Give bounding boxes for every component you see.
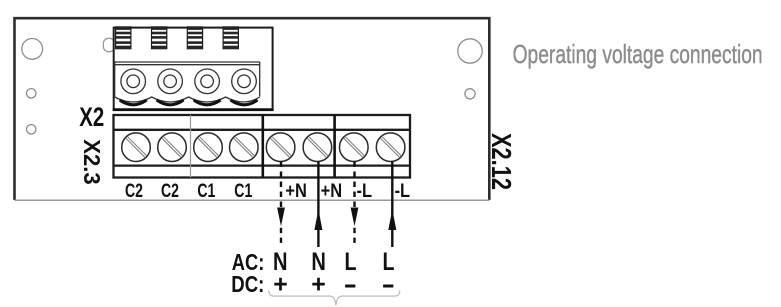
strip divider 3 <box>333 115 336 178</box>
strip inner line top <box>114 129 411 131</box>
terminal strip outer <box>114 115 411 178</box>
arrow L1 down <box>351 208 359 227</box>
connector contact smiles <box>120 100 258 105</box>
connector pin 3 <box>187 27 202 49</box>
terminal screw 4 <box>230 133 259 162</box>
connector outer box <box>114 28 273 111</box>
connector body <box>115 62 260 102</box>
terminal screw 1 <box>122 133 151 162</box>
connector socket 1 <box>121 69 146 94</box>
svg-text:C1: C1 <box>234 181 252 202</box>
wire N2 solid <box>317 162 319 248</box>
svg-text:-L: -L <box>395 181 411 202</box>
brace <box>269 290 400 305</box>
arrow N2 up <box>314 209 322 230</box>
arrow L2 up <box>388 209 396 230</box>
connector socket 3 <box>195 69 220 94</box>
wire L1 dashed <box>353 162 355 245</box>
svg-text:+: + <box>311 270 326 298</box>
svg-text:C1: C1 <box>197 181 215 202</box>
arrow N1 down <box>277 208 285 227</box>
svg-text:C2: C2 <box>161 181 179 202</box>
wire N1 dashed <box>280 162 282 245</box>
wire L2 solid <box>391 162 393 248</box>
svg-text:+N: +N <box>321 181 343 202</box>
terminal screw 2 <box>158 133 187 162</box>
mounting hole top-right <box>458 39 482 63</box>
svg-text:C2: C2 <box>125 181 143 202</box>
terminal screw 8 <box>376 133 405 162</box>
strip divider 2 <box>261 115 264 178</box>
mounting hole top-left <box>22 39 43 60</box>
connector bottom thick edge <box>113 108 274 111</box>
terminal screw 3 <box>194 133 223 162</box>
svg-text:+: + <box>273 270 288 298</box>
svg-text:X2.3: X2.3 <box>79 139 105 185</box>
svg-text:+N: +N <box>285 181 307 202</box>
connector pin 4 <box>223 27 238 49</box>
connector socket 2 <box>158 69 183 94</box>
panel outline <box>15 18 490 200</box>
mounting hole left small 2 <box>27 125 36 134</box>
connector pin 2 <box>152 27 167 49</box>
connector socket 4 <box>232 69 257 94</box>
svg-text:X2.12: X2.12 <box>486 133 517 190</box>
connector latch tab <box>103 38 114 51</box>
terminal screw 6 <box>303 133 332 162</box>
body scalloped bottom <box>115 97 260 102</box>
svg-text:Operating voltage connection: Operating voltage connection <box>513 39 763 69</box>
mounting hole right small <box>465 89 475 99</box>
strip divider thin <box>190 115 192 178</box>
strip inner line bottom <box>114 164 411 166</box>
connector pin 1 <box>116 27 131 49</box>
terminal screw 5 <box>266 133 295 162</box>
svg-text:-: - <box>382 270 396 298</box>
svg-text:-L: -L <box>357 181 373 202</box>
svg-text:-: - <box>344 270 358 298</box>
mounting hole left small 1 <box>27 89 36 98</box>
svg-text:DC:: DC: <box>231 271 264 297</box>
svg-text:X2: X2 <box>79 102 104 132</box>
terminal screw 7 <box>340 133 369 162</box>
panel bottom edge <box>15 199 490 201</box>
